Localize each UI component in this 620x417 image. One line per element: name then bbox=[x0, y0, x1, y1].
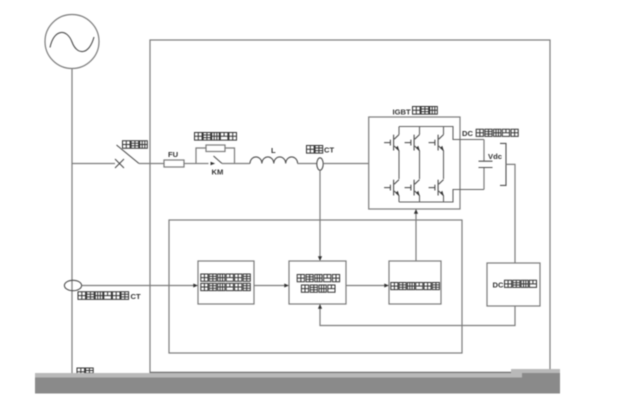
measurement bracket bbox=[500, 143, 506, 185]
svg-text:CT: CT bbox=[131, 292, 141, 301]
wire: fuse to precharge branch bbox=[184, 163, 196, 165]
label IGBT逆变器 bbox=[393, 107, 438, 117]
inner control board box bbox=[169, 220, 462, 353]
IGBT Q3 (top) bbox=[429, 135, 444, 152]
svg-text:Vdc: Vdc bbox=[488, 152, 502, 161]
fuse FU bbox=[164, 160, 184, 167]
IGBT Q6 (bottom) bbox=[429, 180, 444, 197]
wire: DC measurement feedback to regulation bbox=[320, 306, 515, 326]
wire: CT to inverter bbox=[323, 163, 369, 165]
wire: DC+ bus bbox=[399, 127, 484, 140]
block: output regulation 输出调节及保护监控 bbox=[289, 261, 346, 304]
wire: bracket tap to DC measurement bbox=[506, 164, 515, 263]
window status bar bbox=[35, 369, 560, 394]
IGBT Q4 (bottom) bbox=[384, 180, 399, 197]
block: DC voltage measurement DC 电压测量 bbox=[487, 263, 540, 306]
svg-text:DC: DC bbox=[493, 280, 504, 289]
IGBT Q2 (top) bbox=[405, 135, 420, 152]
inductor L bbox=[250, 157, 298, 164]
precharge resistor R1 bbox=[206, 145, 225, 152]
IGBT Q1 (top) bbox=[384, 135, 399, 152]
precharge branch wiring bbox=[196, 148, 235, 164]
label 断路器 bbox=[123, 141, 148, 149]
svg-text:DC: DC bbox=[462, 129, 473, 138]
wire: load CT to acquisition bbox=[82, 285, 195, 287]
load current CT bbox=[64, 280, 81, 290]
wire: drive to inverter bbox=[415, 212, 417, 261]
wire: CT tap down to regulation box bbox=[319, 170, 321, 258]
wire: leg 1 bbox=[398, 127, 400, 203]
AC source G1 bbox=[45, 15, 99, 69]
wire: inductor to CT bbox=[298, 163, 318, 165]
DC bus capacitor C1 bbox=[479, 161, 493, 167]
wire: regulation to drive bbox=[346, 285, 386, 287]
wire: DC- bus bbox=[399, 190, 484, 203]
svg-text:L: L bbox=[271, 146, 276, 155]
svg-text:CT: CT bbox=[324, 146, 334, 155]
block: drive circuit 驱动电路部分 bbox=[389, 261, 441, 304]
wire: main AC line segment to breaker bbox=[72, 163, 115, 165]
svg-text:KM: KM bbox=[212, 167, 224, 176]
wire: leg 3 bbox=[443, 127, 445, 203]
IGBT inverter box bbox=[369, 117, 460, 209]
svg-text:FU: FU bbox=[168, 150, 179, 159]
wire: acquisition to regulation bbox=[254, 285, 286, 287]
svg-text:IGBT: IGBT bbox=[393, 108, 412, 117]
IGBT Q5 (bottom) bbox=[405, 180, 420, 197]
outer cabinet box bbox=[150, 40, 550, 373]
wire: source down to load bbox=[71, 69, 73, 376]
label 负载 (load) bbox=[77, 368, 93, 376]
label 预充电回路 bbox=[195, 133, 237, 141]
wire: KM to inductor bbox=[222, 163, 250, 165]
block: data acquisition 数据采集及谐波、无功分离 bbox=[198, 261, 254, 304]
measuring CT bbox=[317, 158, 323, 170]
wire: leg 2 bbox=[419, 127, 421, 203]
label 测量CT bbox=[307, 146, 335, 155]
wire: breaker to fuse bbox=[139, 163, 164, 165]
contactor KM bbox=[196, 156, 222, 165]
breaker QF bbox=[115, 145, 139, 168]
wire: bus cap feeds bbox=[483, 140, 485, 190]
